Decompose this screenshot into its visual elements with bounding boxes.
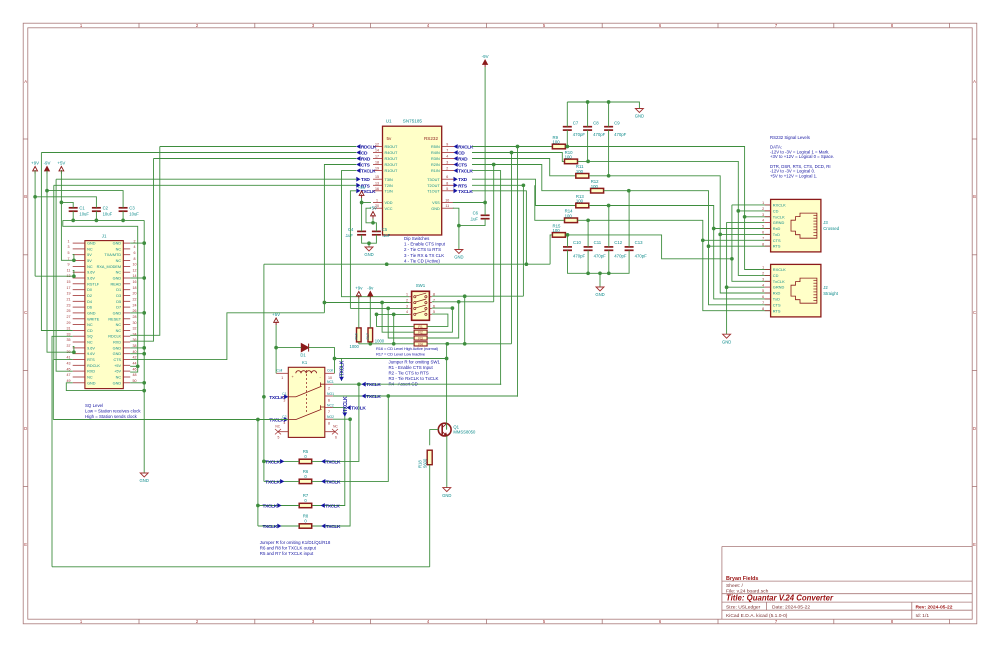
junction <box>45 189 49 193</box>
wire up join RTS <box>52 360 54 420</box>
junction <box>385 262 389 266</box>
svg-text:Title: Quantar V.24 Converter: Title: Quantar V.24 Converter <box>726 594 834 603</box>
svg-text:RXCLK: RXCLK <box>458 145 474 151</box>
svg-text:Straight: Straight <box>823 291 839 296</box>
svg-text:37: 37 <box>67 344 71 348</box>
resistor R6 jumper <box>299 479 312 483</box>
svg-text:CTS: CTS <box>773 302 781 307</box>
junction <box>72 258 76 262</box>
svg-text:SW1: SW1 <box>416 283 426 288</box>
wire pin44 stub <box>130 365 138 367</box>
svg-text:100: 100 <box>576 199 584 204</box>
svg-text:-9V: -9V <box>482 54 489 59</box>
svg-text:470pF: 470pF <box>593 132 606 137</box>
svg-text:1: 1 <box>762 201 764 205</box>
wire cap stub <box>72 211 74 220</box>
svg-text:470pF: 470pF <box>635 254 648 259</box>
svg-text:NC: NC <box>87 323 93 327</box>
svg-text:C7: C7 <box>573 121 579 126</box>
svg-text:T3OUT: T3OUT <box>427 178 440 182</box>
svg-text:RXD: RXD <box>458 157 468 163</box>
svg-text:32: 32 <box>133 327 137 331</box>
svg-text:C: C <box>973 310 976 315</box>
wire +5V to C5 <box>373 223 376 232</box>
wire TXCLK2 vertical to J2 pin3 <box>732 205 771 281</box>
svg-text:17: 17 <box>375 155 379 159</box>
svg-text:RTS: RTS <box>458 183 468 189</box>
ground below J2 <box>723 334 731 338</box>
junction <box>256 418 260 422</box>
svg-text:GND: GND <box>364 252 373 257</box>
svg-text:U1: U1 <box>386 119 392 124</box>
svg-text:10uF: 10uF <box>103 211 113 216</box>
wire J1 pin42 CTS route <box>130 313 324 360</box>
svg-text:470pF: 470pF <box>614 254 627 259</box>
junction <box>392 342 396 346</box>
wire U1 GND pin <box>453 208 459 225</box>
junction <box>707 244 711 248</box>
global label TXCLK at NO1 <box>362 394 366 399</box>
svg-text:1: 1 <box>68 239 70 243</box>
ground below U1 left <box>365 247 373 251</box>
svg-text:25: 25 <box>67 309 71 313</box>
svg-text:16: 16 <box>133 280 137 284</box>
wire stub for vertical label a <box>341 359 343 381</box>
svg-text:9.6V: 9.6V <box>87 346 95 350</box>
wire CTS net to J2 pin7 <box>604 191 771 305</box>
svg-text:RS232 Signal Levels: RS232 Signal Levels <box>770 135 810 140</box>
svg-text:TXCLK: TXCLK <box>366 394 381 400</box>
wire TXCLK16 to SW1 pin3 <box>350 191 356 309</box>
wire C6 bottom <box>459 219 485 226</box>
connector J3 RJ45 crossed <box>771 199 821 252</box>
junction <box>586 271 590 275</box>
svg-text:TXCLK: TXCLK <box>458 169 473 175</box>
wire SW1 pin5 to R1 <box>427 314 448 326</box>
wire R6 right up to NO1 <box>312 396 389 481</box>
SW1 switch elements <box>414 293 427 315</box>
svg-text:R17 = CD Level Low Inactive: R17 = CD Level Low Inactive <box>376 352 426 357</box>
svg-text:GND: GND <box>113 381 122 385</box>
svg-text:100: 100 <box>565 213 573 218</box>
svg-text:SQ: SQ <box>87 335 93 339</box>
svg-text:R4IN: R4IN <box>431 151 440 155</box>
svg-text:RXA_MODEM: RXA_MODEM <box>97 265 121 269</box>
junction <box>607 271 611 275</box>
wire +5V stem <box>372 219 374 223</box>
wire VSS <box>453 202 485 204</box>
transistor Q1 MMSS8050 <box>438 423 451 436</box>
svg-text:Sheet: /: Sheet: / <box>726 583 743 589</box>
svg-text:NC: NC <box>87 265 93 269</box>
wire R15 to C10 <box>567 235 569 247</box>
wire bottom caps gnd rail <box>568 250 630 273</box>
junction <box>142 352 146 356</box>
wire to R3 left <box>388 308 414 338</box>
svg-text:RESET: RESET <box>108 317 121 321</box>
svg-text:C5: C5 <box>382 227 388 232</box>
wire pin8 down to CD row <box>464 296 466 344</box>
svg-text:GND: GND <box>113 346 122 350</box>
junction <box>386 307 390 311</box>
wire gnd stem <box>458 226 460 250</box>
junction <box>492 163 496 167</box>
wire CD pull row right <box>427 343 511 345</box>
svg-text:6: 6 <box>762 231 764 235</box>
resistor R2 <box>414 330 427 334</box>
wire RXCLK net to J2 pin1 <box>565 147 770 270</box>
svg-text:28: 28 <box>133 315 137 319</box>
svg-text:Coil: Coil <box>276 369 282 373</box>
junction <box>510 151 514 155</box>
svg-text:TXCLK: TXCLK <box>366 382 381 388</box>
wire GND stub <box>130 312 144 314</box>
svg-text:7: 7 <box>446 149 448 153</box>
wire -9V down to VSS <box>484 67 486 203</box>
junction <box>142 241 146 245</box>
svg-text:RXD: RXD <box>87 370 95 374</box>
svg-text:CTS: CTS <box>361 163 371 169</box>
capacitor C12 470pF <box>604 247 613 250</box>
resistor R8 jumper <box>299 524 312 528</box>
wire bottom SQ row <box>52 566 430 568</box>
wire C8 stub <box>587 102 589 127</box>
junction <box>142 389 146 393</box>
svg-text:C8: C8 <box>593 121 599 126</box>
svg-text:T2IN: T2IN <box>385 184 393 188</box>
global label TXD (U1 left) <box>356 177 360 182</box>
junction <box>262 460 266 464</box>
svg-text:C11: C11 <box>594 240 602 245</box>
svg-text:RDCLK: RDCLK <box>87 364 100 368</box>
svg-text:9.6V: 9.6V <box>87 277 95 281</box>
svg-text:R1OUT: R1OUT <box>385 169 399 173</box>
wire -9V stem <box>46 171 48 191</box>
svg-text:TXCLK: TXCLK <box>265 479 280 485</box>
title block <box>722 547 972 620</box>
svg-text:GND: GND <box>113 352 122 356</box>
wire C11 gnd stub <box>587 250 589 273</box>
svg-text:MMSS8050: MMSS8050 <box>453 430 476 435</box>
svg-text:D1: D1 <box>300 353 306 358</box>
diode D1 <box>301 344 308 352</box>
wire tap J3 pin6 <box>720 233 770 235</box>
junction <box>367 241 371 245</box>
wire +5V to coil1 <box>275 325 277 373</box>
svg-text:470pF: 470pF <box>614 132 627 137</box>
svg-text:8: 8 <box>762 307 764 311</box>
wire R13 row to C12 <box>608 206 610 247</box>
svg-text:K1: K1 <box>302 360 308 365</box>
global label TXCLK at R5 left <box>280 459 284 464</box>
svg-text:1: 1 <box>406 293 408 297</box>
wire C7 to R9 <box>566 130 568 146</box>
wire clock net left vertical <box>263 264 265 481</box>
wire D1 cathode to coil2 <box>309 348 335 374</box>
svg-text:C1: C1 <box>79 206 85 211</box>
svg-text:5: 5 <box>446 187 448 191</box>
svg-text:29: 29 <box>67 321 71 325</box>
svg-text:100: 100 <box>576 169 584 174</box>
wire RTS down to SW1 pin8 <box>522 185 524 296</box>
svg-text:SQ Level: SQ Level <box>85 403 103 408</box>
svg-text:18: 18 <box>375 161 379 165</box>
svg-text:R16: R16 <box>355 333 359 339</box>
svg-text:R5IN: R5IN <box>431 145 440 149</box>
capacitor C13 470pF <box>625 247 634 250</box>
svg-text:D2: D2 <box>87 294 92 298</box>
svg-text:E: E <box>973 542 976 547</box>
svg-text:8: 8 <box>328 422 330 426</box>
capacitor C2 <box>92 208 101 211</box>
global label TXCLK (U1 right) <box>454 168 458 173</box>
svg-text:C4: C4 <box>348 227 354 232</box>
global label TXCLK at R8 right <box>321 524 325 529</box>
wire RXD net to J2 pin5 <box>589 176 771 293</box>
svg-text:R1 - Enable CTS Input: R1 - Enable CTS Input <box>389 365 434 370</box>
svg-text:2: 2 <box>762 272 764 276</box>
resistor R7 jumper <box>299 503 312 507</box>
power flag +9v at R16 <box>356 292 361 299</box>
svg-text:10uF: 10uF <box>129 211 139 216</box>
svg-text:NC: NC <box>116 271 122 275</box>
wire VDD <box>362 202 371 204</box>
svg-text:GND: GND <box>113 242 122 246</box>
svg-text:CD: CD <box>361 151 368 157</box>
wire R6 left <box>264 480 299 482</box>
svg-text:19: 19 <box>67 292 71 296</box>
svg-text:6: 6 <box>446 175 448 179</box>
svg-text:30: 30 <box>133 321 137 325</box>
svg-text:R1IN: R1IN <box>431 169 440 173</box>
svg-text:CTS: CTS <box>113 358 121 362</box>
svg-text:R1: R1 <box>418 325 423 329</box>
wire CD down to R4 row <box>511 153 513 344</box>
wire tap J3 pin2 <box>738 210 770 212</box>
wire NC1 row <box>333 383 501 385</box>
junction <box>142 311 146 315</box>
wire SW1 pin3 <box>350 307 409 309</box>
resistor R5 jumper <box>299 459 312 463</box>
wire T1OUT down to clock row <box>472 191 526 264</box>
global label CD (U1 right) <box>454 150 458 155</box>
svg-text:6: 6 <box>335 436 337 440</box>
wire R15 out jog <box>565 235 732 259</box>
junction <box>142 276 146 280</box>
svg-text:TxD: TxD <box>773 232 780 237</box>
wire CD pull row left <box>359 343 414 345</box>
global label TXCLK at K1 C1 <box>284 394 288 399</box>
svg-text:+5V: +5V <box>272 312 280 317</box>
global label RXD (U1 left) <box>356 156 360 161</box>
junction <box>522 183 526 187</box>
svg-text:5V: 5V <box>87 259 92 263</box>
svg-text:D0: D0 <box>87 288 92 292</box>
ground bottom caps <box>596 287 604 291</box>
wire RXD row left <box>154 158 357 160</box>
resistor R14 100 <box>565 218 578 223</box>
junction <box>348 417 352 421</box>
global label TXCLK at R8 left <box>277 524 281 529</box>
svg-text:27: 27 <box>67 315 71 319</box>
svg-text:19: 19 <box>375 167 379 171</box>
svg-text:R16 = CD Level High Active (no: R16 = CD Level High Active (normal) <box>376 346 439 351</box>
wire clock out row <box>264 263 550 265</box>
wire pin4 down to CD row <box>393 314 395 343</box>
svg-text:TXCLK: TXCLK <box>269 418 284 424</box>
svg-text:R2: R2 <box>418 331 423 335</box>
global label CTS (U1 right) <box>454 162 458 167</box>
capacitor C10 470pF <box>563 247 572 250</box>
resistor R9 100 <box>552 144 565 149</box>
ground below U1 right <box>455 250 463 254</box>
svg-text:33: 33 <box>67 332 71 336</box>
svg-text:VDD: VDD <box>385 201 393 205</box>
junction <box>457 300 461 304</box>
svg-text:.1uF: .1uF <box>382 233 391 238</box>
resistor R1 <box>414 324 427 328</box>
svg-text:NC: NC <box>116 376 122 380</box>
wire TXD row left <box>56 178 356 180</box>
wire RTS row left <box>54 184 357 186</box>
svg-text:48: 48 <box>133 373 137 377</box>
svg-text:5: 5 <box>68 251 70 255</box>
svg-text:5: 5 <box>278 436 280 440</box>
svg-text:TxD: TxD <box>773 297 780 302</box>
svg-text:J2: J2 <box>823 285 828 290</box>
wire caps to gnd rail <box>362 235 377 243</box>
wire J3 pin4 GND down <box>727 223 765 335</box>
wire rail to J1 pins 44/46 <box>63 220 138 372</box>
junction <box>323 301 327 305</box>
wire +5V to C1 <box>61 202 73 207</box>
wire -9V rail to J1 pin39 <box>47 191 73 353</box>
wire +9V to C4 <box>361 203 363 232</box>
svg-text:TXCLK: TXCLK <box>361 169 376 175</box>
power flag +5V at U1 <box>371 212 376 219</box>
wire tap J3 pin7 <box>703 239 771 241</box>
svg-text:D4: D4 <box>87 300 92 304</box>
svg-text:5v: 5v <box>387 136 393 141</box>
svg-text:15: 15 <box>67 280 71 284</box>
svg-text:NC: NC <box>275 425 280 429</box>
svg-text:17: 17 <box>67 286 71 290</box>
junction <box>72 274 76 278</box>
junction <box>368 342 372 346</box>
global label TXCLK (vertical b) <box>342 396 348 417</box>
svg-text:Rev: 2024-05-22: Rev: 2024-05-22 <box>916 605 953 611</box>
svg-text:RTS: RTS <box>87 358 95 362</box>
svg-text:TXCLK: TXCLK <box>343 396 349 412</box>
svg-text:RDCLK: RDCLK <box>108 335 121 339</box>
svg-text:B: B <box>973 194 976 199</box>
svg-text:CTS: CTS <box>773 238 781 243</box>
svg-text:46: 46 <box>133 367 137 371</box>
svg-text:3 - Tie RX & TX CLK: 3 - Tie RX & TX CLK <box>404 253 444 258</box>
svg-text:GND: GND <box>140 478 149 483</box>
wire to D1 anode <box>276 347 301 349</box>
svg-text:R3 - Tie RxCLK to TxCLK: R3 - Tie RxCLK to TxCLK <box>389 376 439 381</box>
junction <box>72 350 76 354</box>
svg-text:TXCLK: TXCLK <box>262 524 277 530</box>
junction <box>730 257 734 261</box>
svg-text:31: 31 <box>67 327 71 331</box>
svg-text:R2OUT: R2OUT <box>385 163 399 167</box>
wire RTS net to J2 pin8 <box>578 220 771 310</box>
svg-text:9: 9 <box>68 263 70 267</box>
svg-text:GND: GND <box>635 114 644 119</box>
svg-text:4: 4 <box>762 283 764 287</box>
svg-text:WRITE: WRITE <box>87 317 100 321</box>
svg-text:TxCLK: TxCLK <box>773 279 785 284</box>
svg-text:READ: READ <box>111 282 122 286</box>
svg-text:4: 4 <box>446 155 448 159</box>
wire cap stub <box>122 211 124 220</box>
svg-text:6: 6 <box>328 398 330 402</box>
svg-text:J3: J3 <box>823 220 828 225</box>
svg-text:T3IN: T3IN <box>385 178 393 182</box>
junction <box>121 219 125 223</box>
svg-text:GND: GND <box>87 381 96 385</box>
wire J1 pin41 RTS <box>54 185 73 359</box>
global label TXCLK at R6 right <box>321 479 325 484</box>
wire R14 left staircase <box>535 185 565 220</box>
svg-text:TXCLK: TXCLK <box>340 360 346 376</box>
wire CTS to R12 <box>472 165 590 191</box>
svg-text:D7: D7 <box>116 306 121 310</box>
junction <box>525 262 529 266</box>
global label TXCLK at K1 C2 <box>284 417 288 422</box>
junction <box>607 100 611 104</box>
svg-text:43: 43 <box>67 362 71 366</box>
svg-text:D1: D1 <box>116 288 121 292</box>
svg-text:R17: R17 <box>366 333 370 339</box>
svg-text:7: 7 <box>762 236 764 240</box>
svg-text:Size: USLedger: Size: USLedger <box>726 605 761 611</box>
svg-text:GND: GND <box>113 311 122 315</box>
wire caps top rail <box>567 102 639 109</box>
svg-text:RXCLK: RXCLK <box>773 203 786 208</box>
svg-text:+3V to +12V = Logical 0 = Spa: +3V to +12V = Logical 0 = Space. <box>770 154 834 159</box>
svg-text:+9V: +9V <box>358 185 366 190</box>
svg-text:35: 35 <box>67 338 71 342</box>
wire R15 left <box>550 235 552 264</box>
svg-text:2: 2 <box>328 387 330 391</box>
svg-text:RXD: RXD <box>113 341 121 345</box>
resistor R11 100 <box>576 174 589 179</box>
svg-text:.1uF: .1uF <box>470 217 479 222</box>
wire +5V stem <box>60 171 62 203</box>
wire J1 pin45 RXD <box>56 179 73 371</box>
svg-text:2: 2 <box>762 207 764 211</box>
ground below J1 <box>140 473 148 477</box>
connector J1 <box>85 241 123 389</box>
resistor R18 5600 <box>427 450 432 465</box>
svg-text:-9V: -9V <box>44 160 51 165</box>
svg-text:R5 and R7 for TXCLK input: R5 and R7 for TXCLK input <box>260 551 314 556</box>
svg-text:9.6V: 9.6V <box>87 271 95 275</box>
svg-text:+5V: +5V <box>114 364 121 368</box>
junction <box>262 395 266 399</box>
global label TXCLK at NC2 <box>347 405 351 410</box>
svg-text:C10: C10 <box>573 240 581 245</box>
svg-text:GND: GND <box>87 242 96 246</box>
svg-text:+9V: +9V <box>31 160 39 165</box>
capacitor C8 470pF <box>583 127 592 130</box>
svg-text:GND: GND <box>431 207 440 211</box>
wire to R2 right <box>427 308 452 332</box>
svg-text:GRND: GRND <box>773 285 785 290</box>
